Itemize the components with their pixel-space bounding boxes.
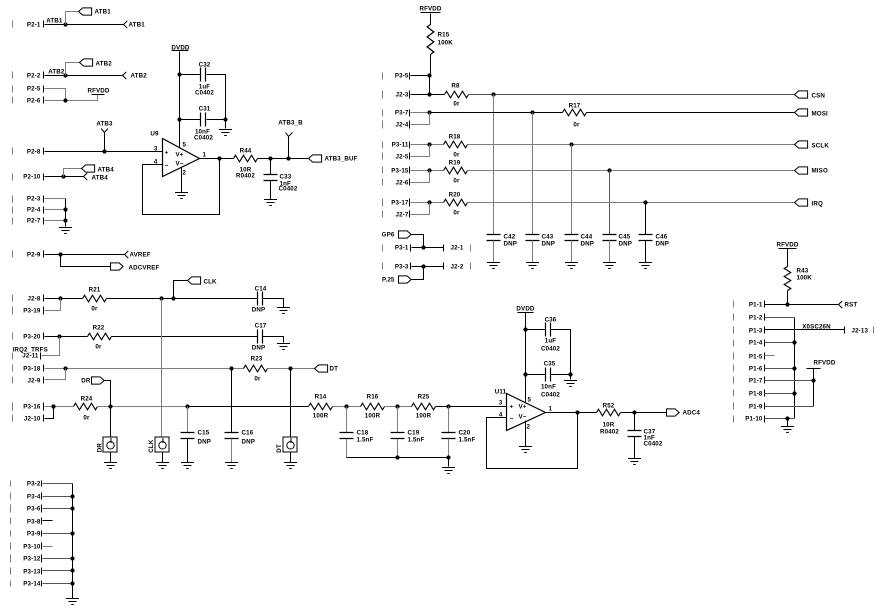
wire P2-5 row bbox=[45, 89, 66, 101]
svg-text:P1-1: P1-1 bbox=[749, 302, 763, 309]
wire to ADCVREF bbox=[61, 255, 111, 267]
svg-text:100R: 100R bbox=[416, 413, 432, 420]
svg-text:C0402: C0402 bbox=[644, 441, 663, 448]
node AVREF junction bbox=[58, 252, 62, 256]
node P2-7 junction bbox=[63, 218, 67, 222]
svg-text:P3-2: P3-2 bbox=[27, 481, 41, 488]
ground DR bbox=[104, 463, 117, 469]
connector P3-11 bbox=[383, 142, 410, 149]
connector P2-2 bbox=[13, 72, 44, 80]
wire R16 to R25 bbox=[385, 406, 412, 408]
svg-text:MISO: MISO bbox=[812, 168, 828, 175]
wire P2-10 row bbox=[45, 176, 84, 178]
svg-text:P3-8: P3-8 bbox=[27, 519, 41, 526]
ground C45 bbox=[603, 263, 616, 269]
wire P1-1 row bbox=[765, 304, 839, 306]
node rail C19 junction bbox=[395, 455, 399, 459]
connector P1-8 bbox=[734, 390, 765, 398]
wire P1-8 row bbox=[765, 393, 795, 395]
node C44 junction bbox=[569, 142, 573, 146]
svg-text:P3-4: P3-4 bbox=[27, 494, 41, 501]
connector P1-4 bbox=[734, 340, 765, 347]
port DT bbox=[315, 365, 339, 373]
svg-text:P3-1: P3-1 bbox=[395, 245, 409, 252]
connector P3-10 bbox=[11, 543, 42, 551]
svg-text:R0402: R0402 bbox=[600, 429, 619, 436]
svg-text:P3-12: P3-12 bbox=[23, 556, 41, 563]
ground P2 bbox=[59, 228, 72, 234]
wire R43 to P1-1 bbox=[787, 291, 789, 305]
svg-text:J2-10: J2-10 bbox=[24, 416, 41, 423]
wire P3-17 row bbox=[411, 202, 444, 204]
svg-text:P3-10: P3-10 bbox=[23, 544, 41, 551]
port ADC4 bbox=[667, 409, 701, 417]
svg-text:5: 5 bbox=[183, 142, 187, 149]
wire P2-4 row bbox=[45, 209, 66, 211]
ground P3 bbox=[66, 599, 79, 605]
connector P2-1 bbox=[13, 21, 44, 29]
svg-text:ATB1: ATB1 bbox=[95, 9, 112, 16]
resistor R44 bbox=[234, 148, 258, 180]
wire C36 left bbox=[526, 329, 546, 331]
svg-text:C35: C35 bbox=[544, 361, 556, 368]
wire RFVDD2 drop bbox=[813, 369, 815, 407]
wire rail to ground bbox=[448, 458, 450, 467]
svg-text:R44: R44 bbox=[240, 148, 252, 155]
ground C42 bbox=[487, 263, 500, 269]
svg-text:RST: RST bbox=[845, 302, 858, 309]
node P3-20 junction bbox=[57, 334, 61, 338]
svg-text:C0402: C0402 bbox=[195, 90, 214, 97]
svg-text:P3-16: P3-16 bbox=[23, 404, 41, 411]
svg-text:P2-1: P2-1 bbox=[27, 22, 41, 29]
svg-text:3: 3 bbox=[154, 146, 158, 153]
node ATB1 junction bbox=[63, 22, 67, 26]
wire CLK tp ground bbox=[162, 453, 164, 463]
svg-text:C45: C45 bbox=[619, 234, 631, 241]
port MOSI bbox=[795, 109, 829, 118]
wire P3-7 row bbox=[411, 112, 430, 114]
svg-text:GP6: GP6 bbox=[382, 232, 395, 239]
wire P3-3 row bbox=[412, 266, 444, 268]
svg-text:P3-20: P3-20 bbox=[23, 334, 41, 341]
svg-text:U11: U11 bbox=[495, 389, 507, 396]
node C33 junction bbox=[268, 156, 272, 160]
wire DVDD rail U11 bbox=[525, 313, 527, 403]
node J2-3 junction bbox=[427, 92, 431, 96]
node U11 feedback junction bbox=[575, 410, 579, 414]
flag ATB1 bbox=[79, 8, 112, 16]
node C43 junction bbox=[530, 110, 534, 114]
connector P2-4 bbox=[13, 207, 44, 214]
svg-text:P2-8: P2-8 bbox=[27, 149, 41, 156]
svg-text:ATB2: ATB2 bbox=[96, 61, 113, 68]
wire R24 row left bbox=[45, 406, 74, 408]
node C19 junction bbox=[395, 404, 399, 408]
node P3-18 junction bbox=[63, 366, 67, 370]
node P1-4 junction bbox=[792, 340, 796, 344]
connector J2-3 bbox=[383, 91, 410, 99]
wire P2-7 row bbox=[45, 220, 66, 222]
svg-text:P3-14: P3-14 bbox=[23, 581, 41, 588]
wire C18 drop bbox=[346, 407, 348, 433]
svg-text:R17: R17 bbox=[569, 102, 581, 109]
wire DR to R24 row bbox=[105, 381, 111, 407]
wire P1-9 row bbox=[765, 406, 814, 408]
svg-text:C32: C32 bbox=[199, 62, 211, 69]
svg-text:C0402: C0402 bbox=[279, 186, 298, 193]
wire C16 drop bbox=[231, 369, 233, 433]
svg-text:V−: V− bbox=[519, 414, 527, 421]
connector P1-3 bbox=[734, 327, 765, 335]
svg-text:100R: 100R bbox=[365, 413, 381, 420]
svg-text:C42: C42 bbox=[504, 234, 516, 241]
wire C45 drop bbox=[609, 171, 611, 235]
wire P2-9 row bbox=[45, 254, 125, 256]
node P1-10 junction bbox=[785, 416, 789, 420]
connector J2-10 bbox=[13, 415, 44, 423]
capacitor C20 bbox=[442, 430, 476, 444]
ground C17 bbox=[277, 344, 290, 350]
wire P1-6 row bbox=[765, 368, 795, 370]
connector J2-7 bbox=[383, 211, 410, 219]
ground C44 bbox=[565, 263, 578, 269]
svg-text:0r: 0r bbox=[254, 376, 261, 383]
ground C31 bbox=[219, 130, 232, 136]
connector P3-2 bbox=[11, 481, 42, 488]
ground C43 bbox=[526, 263, 539, 269]
svg-text:0r: 0r bbox=[83, 415, 90, 422]
wire C31 left bbox=[180, 119, 201, 121]
svg-text:X0SC26N: X0SC26N bbox=[802, 324, 831, 331]
resistor R52 bbox=[597, 402, 621, 435]
wire C45 to ground bbox=[609, 241, 611, 263]
node P3-4 junction bbox=[70, 494, 74, 498]
wire C19 drop bbox=[397, 407, 399, 433]
node C42 junction bbox=[491, 92, 495, 96]
connector P1-9 bbox=[734, 403, 765, 411]
connector P2-9 bbox=[13, 251, 44, 259]
wire P3-8 stub bbox=[43, 520, 53, 522]
node C36 junction bbox=[523, 327, 527, 331]
wire J2-11 row bbox=[42, 337, 60, 356]
wire C18 bottom bbox=[346, 439, 348, 458]
wire P3-9 row bbox=[43, 533, 73, 535]
port IRQ bbox=[795, 199, 823, 208]
wire C15 ground bbox=[187, 439, 189, 463]
svg-text:R8: R8 bbox=[451, 83, 460, 90]
wire P2 ground bus bbox=[65, 199, 67, 227]
wire J2-7 row bbox=[411, 203, 430, 215]
svg-text:C44: C44 bbox=[581, 234, 593, 241]
wire C15 drop bbox=[187, 407, 189, 433]
node ATB3_B junction bbox=[286, 156, 290, 160]
svg-text:RFVDD: RFVDD bbox=[419, 6, 441, 13]
svg-text:R20: R20 bbox=[449, 192, 461, 199]
wire P3-14 row bbox=[43, 583, 73, 585]
wire P3-15 row bbox=[411, 170, 444, 172]
node P3-3 junction bbox=[421, 264, 425, 268]
capacitor C35 bbox=[541, 361, 560, 399]
svg-text:P2-7: P2-7 bbox=[27, 218, 41, 225]
wire U9 feedback bbox=[143, 159, 220, 215]
svg-text:0r: 0r bbox=[573, 122, 580, 129]
node C20 junction bbox=[446, 404, 450, 408]
svg-text:R18: R18 bbox=[449, 134, 461, 141]
svg-text:DR: DR bbox=[97, 443, 104, 453]
wire RFVDD to R15 bbox=[430, 14, 432, 25]
wire R23 to DT bbox=[268, 368, 315, 370]
wire C44 to ground bbox=[571, 241, 573, 263]
svg-text:R23: R23 bbox=[251, 356, 263, 363]
wire DR testpoint drop bbox=[110, 407, 112, 438]
port ATB2 bbox=[123, 72, 148, 80]
svg-text:0r: 0r bbox=[453, 210, 460, 217]
wire P3-1 row bbox=[412, 247, 444, 249]
svg-text:ATB2: ATB2 bbox=[48, 69, 65, 76]
svg-text:P3-3: P3-3 bbox=[395, 264, 409, 271]
svg-text:J2-1: J2-1 bbox=[451, 245, 464, 252]
resistor R43 bbox=[784, 267, 812, 291]
node P1-1 junction bbox=[785, 302, 789, 306]
node P3-1 junction bbox=[421, 245, 425, 249]
capacitor C46 bbox=[639, 234, 670, 248]
capacitor C43 bbox=[526, 234, 556, 248]
capacitor C17 bbox=[252, 323, 267, 352]
wire DT tp ground bbox=[290, 453, 292, 463]
svg-text:10nF: 10nF bbox=[541, 384, 556, 391]
port P.25 bbox=[382, 276, 411, 284]
wire R21 row left bbox=[45, 298, 83, 300]
node C37 junction bbox=[632, 410, 636, 414]
wire P2-1 row bbox=[45, 24, 124, 26]
wire J2-4 row bbox=[411, 113, 430, 125]
svg-text:ATB1: ATB1 bbox=[46, 18, 63, 25]
connector P3-15 bbox=[383, 167, 410, 175]
svg-text:P3-7: P3-7 bbox=[395, 110, 409, 117]
connector P2-5 bbox=[13, 86, 44, 93]
ground U11 bbox=[519, 447, 532, 453]
svg-text:C43: C43 bbox=[542, 234, 554, 241]
svg-text:J2-2: J2-2 bbox=[451, 264, 464, 271]
wire C46 to ground bbox=[645, 241, 647, 263]
svg-text:P2-6: P2-6 bbox=[27, 98, 41, 105]
resistor R20 bbox=[444, 192, 468, 217]
wire U9 output bbox=[200, 158, 234, 160]
svg-text:1: 1 bbox=[203, 152, 207, 159]
svg-text:P3-17: P3-17 bbox=[391, 200, 409, 207]
svg-text:R52: R52 bbox=[603, 402, 615, 409]
svg-text:R22: R22 bbox=[93, 325, 105, 332]
op-amp U11 bbox=[495, 389, 553, 431]
capacitor C31 bbox=[194, 106, 213, 142]
svg-text:P1-6: P1-6 bbox=[749, 366, 763, 373]
svg-text:100R: 100R bbox=[313, 413, 329, 420]
resistor R25 bbox=[412, 394, 436, 420]
connector P3-13 bbox=[11, 568, 42, 576]
svg-text:V+: V+ bbox=[519, 404, 527, 411]
wire P1-10 row bbox=[765, 418, 795, 420]
wire filter row bbox=[188, 406, 309, 408]
svg-text:DVDD: DVDD bbox=[516, 306, 535, 313]
svg-text:ATB4: ATB4 bbox=[98, 167, 115, 174]
wire C31 to ground bbox=[225, 120, 227, 129]
svg-text:1.5nF: 1.5nF bbox=[459, 437, 476, 444]
svg-text:+: + bbox=[165, 150, 169, 157]
wire C16 ground bbox=[231, 439, 233, 463]
svg-text:C19: C19 bbox=[408, 430, 420, 437]
connector J2-2 bbox=[444, 263, 471, 271]
svg-text:J2-11: J2-11 bbox=[22, 353, 39, 360]
node P3-7 junction bbox=[427, 110, 431, 114]
svg-text:P3-9: P3-9 bbox=[27, 531, 41, 538]
svg-text:J2-13: J2-13 bbox=[852, 328, 869, 335]
svg-text:DNP: DNP bbox=[252, 307, 266, 314]
svg-text:100K: 100K bbox=[438, 40, 454, 47]
node P2-4 junction bbox=[63, 207, 67, 211]
svg-text:DNP: DNP bbox=[242, 439, 256, 446]
wire P1-4 row bbox=[765, 342, 795, 344]
wire P1-5 stub bbox=[765, 355, 775, 357]
svg-text:J2-3: J2-3 bbox=[396, 92, 409, 99]
connector P3-19 bbox=[13, 307, 44, 315]
wire P2-2 row bbox=[45, 75, 123, 77]
wire U11 output bbox=[546, 412, 597, 414]
connector J2-8 bbox=[13, 295, 44, 303]
svg-text:P3-15: P3-15 bbox=[391, 168, 409, 175]
svg-text:R14: R14 bbox=[315, 394, 327, 401]
svg-text:C20: C20 bbox=[459, 430, 471, 437]
svg-text:C0402: C0402 bbox=[194, 135, 213, 142]
wire C36 right bbox=[551, 330, 571, 375]
svg-text:MOSI: MOSI bbox=[812, 111, 829, 118]
svg-text:J2-5: J2-5 bbox=[396, 154, 409, 161]
wire P2-6 row bbox=[45, 95, 98, 101]
svg-text:V+: V+ bbox=[176, 152, 184, 159]
wire MISO bus bbox=[468, 170, 795, 172]
node C35 junction bbox=[523, 372, 527, 376]
wire R21 to C14 bbox=[107, 298, 258, 300]
wire P1-2 row bbox=[765, 317, 795, 319]
connector P3-1 bbox=[383, 245, 411, 252]
connector P1-6 bbox=[734, 365, 765, 373]
connector J2-5 bbox=[383, 153, 410, 161]
connector P1-1 bbox=[734, 301, 765, 309]
connector P1-2 bbox=[734, 314, 765, 322]
connector J2-9 bbox=[13, 377, 44, 385]
svg-text:1.5nF: 1.5nF bbox=[357, 437, 374, 444]
ground U9 bbox=[175, 193, 188, 199]
connector P3-16 bbox=[13, 403, 44, 411]
svg-text:R25: R25 bbox=[418, 394, 430, 401]
svg-text:C15: C15 bbox=[198, 430, 210, 437]
wire filter ground rail bbox=[347, 457, 449, 459]
connector P1-5 bbox=[734, 353, 765, 361]
node C18 junction bbox=[344, 404, 348, 408]
node C45 junction bbox=[607, 168, 611, 172]
svg-text:R15: R15 bbox=[438, 32, 450, 39]
svg-text:C31: C31 bbox=[199, 106, 211, 113]
svg-text:R24: R24 bbox=[81, 396, 93, 403]
wire C37 to ground bbox=[634, 437, 636, 459]
port ATB1 bbox=[124, 21, 146, 29]
wire P3-18 row bbox=[45, 368, 244, 370]
power RFVDD P1 bbox=[807, 360, 836, 369]
wire MOSI bus left bbox=[430, 112, 563, 114]
connector P3-9 bbox=[11, 531, 42, 538]
wire C43 to ground bbox=[532, 241, 534, 263]
capacitor C36 bbox=[541, 317, 560, 353]
svg-text:1: 1 bbox=[549, 406, 553, 413]
wire C32 left bbox=[180, 74, 201, 76]
node CLK tag junction bbox=[171, 296, 175, 300]
wire P1 bus bbox=[794, 318, 796, 419]
node C35 ground junction bbox=[568, 372, 572, 376]
port GP6 bbox=[382, 231, 412, 239]
svg-text:RFVDD: RFVDD bbox=[87, 88, 109, 95]
wire P3 ground bus bbox=[72, 484, 74, 584]
svg-text:100K: 100K bbox=[797, 275, 813, 282]
testpoint ATB3_B bbox=[278, 120, 303, 159]
svg-text:ATB4: ATB4 bbox=[92, 175, 109, 182]
svg-text:2: 2 bbox=[183, 170, 187, 177]
svg-text:P1-8: P1-8 bbox=[749, 391, 763, 398]
connector P3-20 bbox=[13, 333, 44, 341]
wire P2-8 row to U9 pin3 bbox=[45, 151, 163, 153]
svg-text:C14: C14 bbox=[255, 286, 267, 293]
resistor R19 bbox=[444, 160, 468, 185]
svg-text:R16: R16 bbox=[367, 394, 379, 401]
connector P2-3 bbox=[13, 196, 44, 203]
wire P3-5 row bbox=[411, 75, 430, 77]
connector J2-6 bbox=[383, 179, 410, 187]
svg-text:P2-4: P2-4 bbox=[27, 207, 41, 214]
node ATB4 junction bbox=[61, 174, 65, 178]
svg-text:V−: V− bbox=[176, 161, 184, 168]
testpoint DT bbox=[276, 437, 297, 453]
capacitor C14 bbox=[252, 286, 267, 314]
svg-text:IRQ: IRQ bbox=[812, 201, 823, 208]
wire to CLK tag bbox=[174, 281, 188, 299]
svg-text:R0402: R0402 bbox=[236, 173, 255, 180]
ground C15 bbox=[181, 463, 194, 469]
wire R25 to U11 bbox=[436, 406, 507, 408]
wire CSN bus bbox=[469, 94, 795, 96]
svg-text:C0402: C0402 bbox=[541, 392, 560, 399]
wire P.25 to P3-3 bbox=[412, 267, 424, 280]
svg-text:AVREF: AVREF bbox=[130, 252, 151, 259]
wire P3-13 row bbox=[43, 570, 73, 572]
wire C42 drop bbox=[493, 95, 495, 235]
resistor R16 bbox=[361, 394, 385, 420]
svg-text:DNP: DNP bbox=[656, 241, 670, 248]
svg-text:P3-13: P3-13 bbox=[23, 569, 41, 576]
node rail C20 junction bbox=[446, 455, 450, 459]
node C16 junction bbox=[229, 366, 233, 370]
wire C14 to ground bbox=[263, 299, 284, 308]
svg-text:C0402: C0402 bbox=[541, 346, 560, 353]
svg-text:3: 3 bbox=[499, 400, 503, 407]
svg-text:P2-9: P2-9 bbox=[27, 252, 41, 259]
node P1-8 junction bbox=[792, 391, 796, 395]
wire P3-6 row bbox=[43, 508, 73, 510]
capacitor C16 bbox=[225, 430, 256, 446]
wire C19 bottom bbox=[397, 439, 399, 458]
wire P3-4 row bbox=[43, 496, 73, 498]
wire P2-3 row bbox=[45, 198, 66, 200]
connector P2-10 bbox=[13, 174, 44, 181]
connector P3-8 bbox=[11, 518, 42, 526]
